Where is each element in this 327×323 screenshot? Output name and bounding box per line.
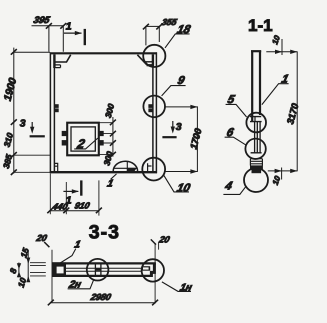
bar foot plate [250,166,262,170]
callout circle 6 [245,139,265,159]
label 10 leader [164,175,189,192]
section mark 1 top: arrow [64,32,82,34]
callout circle 2n [87,259,109,281]
left edge anchor tabs [55,105,59,112]
frame bottom edge [50,171,157,173]
dim 440 / 910 bottom [47,174,102,216]
label 4 leader [223,186,246,195]
bar top cap [251,50,261,52]
label 18 leader [165,34,190,48]
bottom-right corner angle [148,163,152,171]
plate 2 dim column 300/300 [99,102,116,166]
left dim column (3-3): 15/8/10 [8,246,46,288]
dim 355 [143,17,179,45]
corbel top-right [137,55,146,65]
channel inner lines [65,268,142,271]
svg-text:2980: 2980 [89,292,112,302]
label 9 leader [162,86,186,96]
bottom-left corner angle [55,163,58,171]
frame right edge inner [152,54,154,171]
bar joint c6 cap [251,152,262,154]
callout 1 leader (1-1) [262,84,289,105]
svg-text:3: 3 [20,117,26,129]
callout circle 5 [246,113,266,133]
section mark 3 left: cut bar [30,135,45,137]
svg-text:3-3: 3-3 [89,222,120,244]
corbel top-left [55,55,70,62]
svg-text:1-1: 1-1 [248,16,273,35]
frame left edge outer [49,52,51,173]
channel left end block [52,262,66,276]
callout circle 4 [244,168,268,192]
plate 2 tabs [62,131,103,145]
label 2 [74,137,98,151]
channel middle joint [95,264,101,275]
section mark 1 top: cut bar [84,29,86,45]
svg-text:910: 910 [74,201,91,211]
callout circle 18 [143,45,165,67]
frame top edge [50,52,157,54]
right edge anchor tabs [149,105,153,112]
callout 1 (dome) leader [111,174,117,179]
dim 10 bottom (1-1) [271,168,283,187]
frame left edge inner [53,54,55,171]
callout circle 10 [142,158,165,181]
channel right end step [150,264,156,278]
bar joint plates c5 [250,117,262,122]
dim 20 left (3-3) [35,233,52,303]
bar foot tip [252,169,261,173]
bar rods below c5 [255,122,261,153]
left dim column [1,48,50,175]
svg-text:3: 3 [176,121,182,133]
label 5 leader [226,104,247,117]
dim 3170 [266,50,301,173]
svg-text:1: 1 [66,21,72,33]
callout circle 9 [143,96,165,118]
dim 1700 right [165,105,205,174]
embedded plate detail 2 (square) [67,123,99,156]
callout 1 leader (3-3) [60,249,76,264]
svg-text:440: 440 [51,202,69,212]
section mark 3 left: arrow [31,122,33,131]
dome vent on bottom edge [113,161,137,171]
section mark 3 right: cut bar [162,136,176,138]
bar foot stack [250,159,262,164]
bar left wall [251,51,253,122]
section mark 3 right: arrow [172,121,174,131]
label 2n leader [68,280,94,289]
dim 395 [32,15,67,51]
frame right edge outer [155,52,157,173]
callout circle 1n [142,259,164,281]
dim 2980 [48,292,158,305]
section mark 1 bottom: arrow [63,190,78,192]
channel top wall [52,262,156,264]
label 1n leader [162,282,191,292]
dim 10 top (1-1) [270,34,282,55]
channel bottom wall [52,275,152,277]
section mark 1 bottom: cut bar [80,180,82,195]
label 6 leader [225,137,246,145]
dim 20 right (3-3) [151,235,171,304]
bar right wall [259,51,261,115]
